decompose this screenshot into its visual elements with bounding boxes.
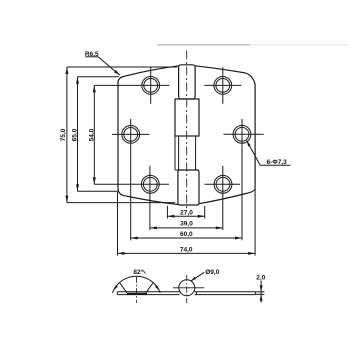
dimension 2,0 side view [255,281,264,303]
hole bottom-right [205,175,241,193]
hinge left leaf outline [118,66,179,205]
dimension 39,0 [150,166,223,230]
hole mid-left [112,125,150,143]
side view plate left part [117,292,179,295]
svg-text:60,0: 60,0 [180,231,193,238]
svg-text:75,0: 75,0 [60,128,67,141]
svg-text:27,0: 27,0 [180,209,193,216]
hinge knuckle barrel inner column [179,65,196,99]
hole bottom-left [132,175,169,193]
dimension 75,0 vertical [67,67,177,203]
angle arrow left [114,285,118,290]
svg-text:54,0: 54,0 [89,128,96,141]
knuckle segment 3 left edge [174,136,176,170]
dimension 60,0 [131,119,242,240]
svg-text:2,0: 2,0 [256,274,265,281]
svg-text:Ø9,0: Ø9,0 [205,269,219,276]
dimension 54,0 vertical [94,85,132,184]
hinge right leaf outline [195,66,255,204]
curled leaf angle arc [112,276,160,293]
pin centerline [186,51,188,211]
svg-text:39,0: 39,0 [180,221,193,228]
dimension 74,0 [118,189,256,256]
side view plate right part [195,292,256,295]
pin circle side view [179,280,195,296]
dome centerline [136,277,138,303]
angle ray left [120,283,127,293]
svg-text:82°: 82° [133,268,143,276]
angle arrow right [155,285,159,290]
knuckle segment 2 [175,99,199,136]
dimension 65,0 vertical [78,77,119,192]
faint horizontal rule top [157,44,250,46]
angle ray right [146,283,153,293]
knuckle segment 3 [178,136,180,170]
dimension 27,0 [167,206,204,219]
hole top-left [132,67,169,104]
hole mid-right [224,125,264,143]
svg-text:74,0: 74,0 [180,247,193,254]
dome base thick segment [127,293,147,295]
svg-text:65,0: 65,0 [72,128,79,141]
hole top-right [204,67,241,104]
knuckle segment 4 [178,170,199,205]
